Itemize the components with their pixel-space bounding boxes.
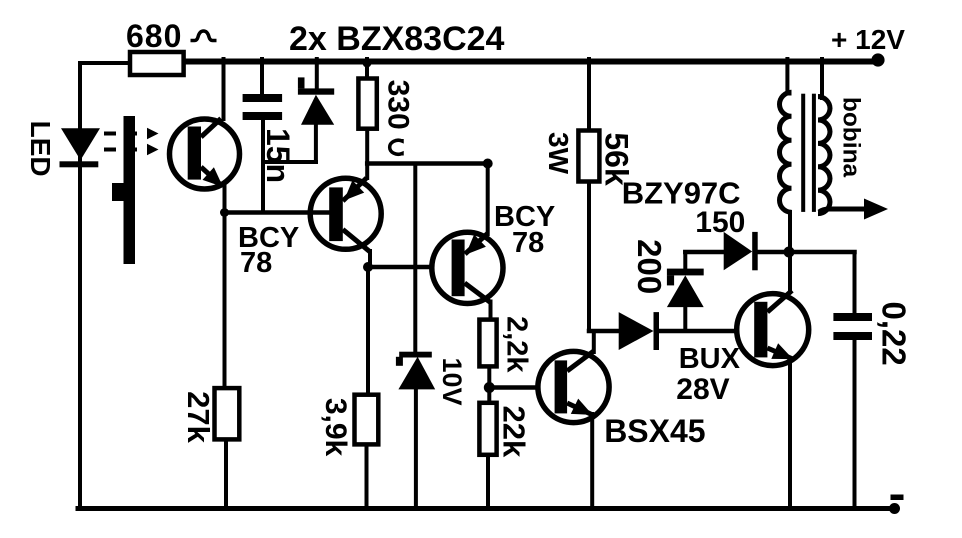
svg-text:0,22: 0,22 (876, 301, 913, 365)
svg-text:680: 680 (126, 18, 182, 54)
svg-text:bobina: bobina (838, 97, 865, 178)
svg-text:15n: 15n (260, 128, 296, 183)
svg-text:2x BZX83C24: 2x BZX83C24 (289, 20, 505, 58)
svg-text:22k: 22k (497, 406, 532, 458)
svg-text:+ 12V: + 12V (831, 24, 905, 55)
svg-text:LED: LED (25, 121, 56, 177)
svg-text:3,9k: 3,9k (319, 398, 352, 457)
svg-text:56k: 56k (599, 132, 635, 186)
svg-text:BUX: BUX (679, 343, 741, 375)
svg-text:10V: 10V (437, 357, 467, 405)
svg-text:78: 78 (512, 227, 544, 259)
svg-text:3W: 3W (543, 132, 574, 175)
svg-text:330: 330 (381, 80, 414, 130)
svg-text:28V: 28V (676, 373, 729, 406)
svg-text:2,2k: 2,2k (500, 316, 532, 373)
svg-text:200: 200 (631, 239, 668, 294)
svg-text:27k: 27k (181, 391, 216, 443)
svg-text:BSX45: BSX45 (604, 413, 705, 449)
svg-text:78: 78 (240, 247, 272, 279)
svg-text:150: 150 (695, 206, 745, 239)
